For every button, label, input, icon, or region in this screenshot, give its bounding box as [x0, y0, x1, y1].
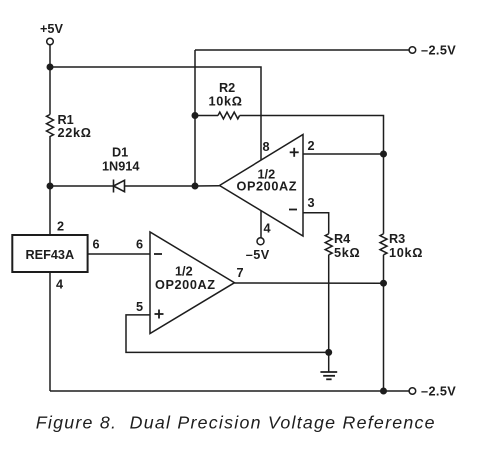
op-amp U1 — [220, 135, 304, 237]
svg-text:8: 8 — [263, 140, 270, 154]
svg-text:+5V: +5V — [40, 22, 63, 36]
wire R4 bottom to ground node — [328, 255, 330, 353]
wire to D1 cathode — [50, 185, 114, 187]
svg-text:Figure 8. Dual Precision Volt: Figure 8. Dual Precision Voltage Referen… — [36, 413, 436, 433]
wire +5V rail to pin8 — [50, 67, 261, 160]
svg-text:R3: R3 — [389, 232, 405, 246]
+5V terminal — [47, 38, 54, 45]
svg-text:R1: R1 — [58, 113, 74, 127]
svg-text:1/2: 1/2 — [175, 265, 193, 279]
wire op2 output — [235, 282, 384, 284]
wire pin 6 — [88, 253, 150, 255]
diode D1 — [114, 180, 196, 193]
svg-text:REF43A: REF43A — [26, 248, 75, 262]
svg-text:4: 4 — [56, 278, 63, 292]
wire R2 left lead — [195, 115, 218, 117]
wire pin 4 to -5V — [260, 211, 262, 238]
wire bottom rail — [50, 390, 409, 392]
svg-text:OP200AZ: OP200AZ — [155, 278, 216, 292]
REF43A U3 box — [12, 235, 87, 272]
svg-text:6: 6 — [93, 238, 100, 252]
svg-text:22kΩ: 22kΩ — [58, 126, 92, 140]
node bottom -2.5V junction — [380, 388, 387, 395]
op-amp U2 plus symbol — [155, 310, 164, 319]
svg-text:–5V: –5V — [246, 248, 270, 262]
wire +5V terminal to rail — [49, 45, 51, 67]
wire vertical output net x=195 — [194, 50, 196, 186]
svg-text:1N914: 1N914 — [102, 160, 139, 174]
wire pin 2 — [303, 153, 384, 155]
resistor R1 — [47, 115, 54, 137]
svg-text:D1: D1 — [112, 146, 128, 160]
svg-text:5: 5 — [136, 300, 143, 314]
svg-text:–2.5V: –2.5V — [421, 385, 456, 399]
wire REF43A pin 4 down — [49, 272, 51, 391]
ground — [320, 352, 337, 379]
resistor R3 — [380, 234, 387, 255]
svg-text:2: 2 — [308, 139, 315, 153]
svg-text:2: 2 — [57, 220, 64, 234]
node diode-left junction — [47, 183, 54, 190]
wire R3 top lead — [383, 154, 385, 234]
node op2 output / R3 junction — [380, 280, 387, 287]
svg-text:6: 6 — [136, 238, 143, 252]
resistor R2 — [218, 112, 240, 119]
svg-text:7: 7 — [237, 266, 244, 280]
wire pin 5 feedback — [126, 315, 329, 353]
svg-text:10kΩ: 10kΩ — [209, 95, 243, 109]
svg-text:3: 3 — [308, 196, 315, 210]
node ground junction — [325, 349, 332, 356]
wire op1 output to node C — [195, 185, 220, 187]
wire R3 node to bottom rail — [383, 283, 385, 391]
op-amp U1 minus symbol — [289, 209, 297, 211]
svg-text:5kΩ: 5kΩ — [334, 246, 360, 260]
op-amp U2 — [150, 232, 235, 334]
wire R1 top lead — [49, 67, 51, 115]
op-amp U2 minus symbol — [154, 253, 162, 255]
wire R2 right to pin2 node — [240, 116, 384, 155]
node +5V rail junction — [47, 64, 54, 71]
wire R3 bottom lead — [383, 255, 385, 283]
node R2 left junction — [192, 112, 199, 119]
wire top rail to -2.5V — [195, 49, 409, 51]
svg-text:R4: R4 — [334, 232, 350, 246]
terminal -2.5V top — [409, 47, 416, 54]
svg-text:R2: R2 — [219, 81, 235, 95]
node pin2/R3 junction — [380, 151, 387, 158]
node C output junction — [192, 183, 199, 190]
svg-text:10kΩ: 10kΩ — [389, 246, 423, 260]
terminal -2.5V bottom — [409, 388, 416, 395]
wire REF43A pin 2 — [49, 186, 51, 235]
wire pin 3 to R4 — [303, 213, 329, 234]
resistor R4 — [325, 234, 332, 255]
op-amp U1 plus symbol — [290, 148, 299, 157]
svg-text:4: 4 — [264, 222, 271, 236]
terminal -5V — [257, 238, 264, 245]
svg-text:–2.5V: –2.5V — [421, 44, 456, 58]
wire R1 bottom lead — [49, 136, 51, 186]
svg-text:OP200AZ: OP200AZ — [237, 180, 298, 194]
